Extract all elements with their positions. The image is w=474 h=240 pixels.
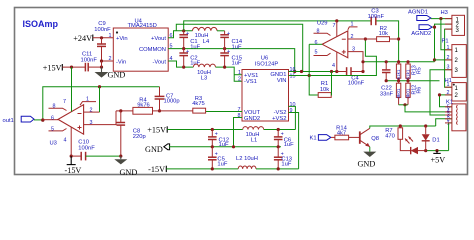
svg-text:1uF: 1uF	[232, 44, 242, 50]
svg-text:15: 15	[290, 74, 296, 80]
svg-text:GND: GND	[145, 145, 163, 154]
capacitor C11	[81, 52, 98, 72]
svg-text:1: 1	[86, 97, 89, 103]
wire P1 pin3 down to K pin3	[430, 70, 452, 115]
wire U29 output descent	[308, 44, 310, 75]
port AGND2	[411, 25, 432, 37]
capacitor C13	[274, 147, 292, 169]
U29 pin 4 drop to GND1	[332, 52, 337, 72]
svg-text:D1: D1	[432, 137, 439, 143]
svg-text:+24V: +24V	[73, 34, 92, 43]
port out1	[3, 116, 45, 124]
svg-text:5: 5	[51, 127, 54, 133]
svg-text:10k: 10k	[379, 31, 388, 37]
capacitor C2	[179, 49, 200, 68]
ground GND under C8	[114, 155, 137, 178]
svg-text:9: 9	[290, 108, 293, 114]
transistor Q8	[360, 128, 379, 147]
port AGND1	[408, 10, 431, 21]
svg-text:16: 16	[290, 67, 296, 73]
svg-text:100nF: 100nF	[348, 81, 365, 87]
resistor R1	[309, 72, 331, 98]
U29 pin 6 output	[309, 40, 322, 46]
svg-text:-VS1: -VS1	[244, 79, 257, 85]
inductor L1	[243, 127, 264, 144]
svg-text:1uF: 1uF	[232, 61, 242, 67]
svg-text:10k: 10k	[320, 87, 329, 93]
U29 pin 8 stub	[314, 28, 331, 35]
svg-text:51k1: 51k1	[396, 69, 401, 79]
resistor R3	[192, 96, 205, 113]
svg-text:-Vout: -Vout	[152, 59, 166, 65]
svg-text:VIN: VIN	[277, 78, 287, 84]
wire U4 pin2	[100, 59, 113, 62]
U29 pin 3 wire down to C4 node	[348, 47, 363, 72]
svg-text:3: 3	[352, 47, 355, 53]
wire rail GND2	[169, 145, 281, 148]
wire R4 to R3	[153, 110, 193, 112]
svg-text:ISO124P: ISO124P	[255, 62, 279, 68]
capacitor C3	[368, 8, 385, 25]
resistor R6	[406, 81, 423, 105]
U29 pin 7 supply	[333, 21, 337, 37]
svg-text:L4: L4	[203, 39, 210, 45]
connector H3	[441, 10, 465, 35]
svg-text:470: 470	[385, 133, 395, 139]
connector K1 plug	[446, 100, 466, 131]
svg-text:100nF: 100nF	[78, 145, 95, 151]
capacitor C10	[71, 140, 121, 161]
svg-text:-15V: -15V	[148, 165, 165, 174]
svg-text:L2 10uH: L2 10uH	[236, 156, 258, 162]
svg-text:1: 1	[351, 21, 354, 27]
svg-text:+Vout: +Vout	[151, 36, 166, 42]
svg-text:1uF: 1uF	[281, 162, 291, 168]
port GND mid	[145, 144, 170, 154]
wire row2	[385, 79, 440, 82]
wire +15V top run	[62, 61, 103, 69]
wire AGND1 to H3 pin1	[431, 17, 452, 20]
resistor R5	[396, 62, 401, 81]
resistor R2	[377, 26, 399, 42]
wire GND2 pin8 descent	[234, 118, 243, 147]
svg-text:+5V: +5V	[431, 156, 446, 165]
wire R12/R6 bottoms to K pin 4	[399, 103, 452, 112]
capacitor C14	[217, 31, 243, 51]
svg-text:100nF: 100nF	[368, 14, 385, 20]
svg-text:4k75: 4k75	[192, 101, 205, 107]
wire input node run	[116, 109, 133, 112]
U3 pin 4 to -15V	[64, 127, 73, 158]
wire P1 pin2	[435, 59, 452, 61]
wire COMMON rail	[168, 47, 296, 73]
wire +24V to U4 pin1	[93, 36, 114, 39]
wire -Vout jog	[168, 61, 193, 69]
wire H3 pin3 to H1 pin1	[445, 29, 452, 87]
wire row1 AGND node	[361, 60, 434, 63]
LED	[405, 137, 426, 155]
wire U4 pin6 jog to top rail	[168, 29, 192, 38]
capacitor C4	[337, 67, 365, 86]
capacitor C6	[274, 130, 294, 149]
svg-text:8: 8	[238, 113, 241, 119]
svg-text:51k1: 51k1	[406, 69, 411, 79]
svg-text:1uF: 1uF	[284, 142, 294, 148]
svg-text:L1: L1	[251, 138, 257, 144]
svg-text:Q8: Q8	[371, 136, 379, 142]
svg-text:4: 4	[332, 63, 335, 69]
svg-text:H3: H3	[441, 10, 448, 16]
wire T1 net	[184, 19, 399, 62]
U3 pin 2 wire to feedback	[84, 87, 100, 114]
wire T2 net	[176, 24, 302, 71]
connector H1	[445, 78, 467, 101]
svg-text:U29: U29	[317, 21, 328, 27]
sheet frame	[15, 8, 468, 175]
svg-text:GND2: GND2	[244, 116, 260, 122]
wire H1 pin2 to K pin5	[438, 93, 452, 107]
U3 pin 1 stub	[80, 97, 96, 106]
svg-text:+: +	[186, 31, 189, 37]
svg-text:5: 5	[315, 50, 318, 56]
svg-text:+Vin: +Vin	[116, 36, 128, 42]
port -15V mid	[148, 165, 166, 174]
resistor R12	[396, 81, 401, 105]
svg-text:2: 2	[351, 34, 354, 40]
inductor L4	[193, 27, 217, 45]
svg-text:10uH: 10uH	[195, 33, 209, 39]
svg-text:3k01: 3k01	[406, 88, 411, 98]
port K1	[310, 135, 335, 142]
inductor L3	[193, 64, 215, 82]
port +15V mid	[147, 125, 167, 134]
svg-text:1000p: 1000p	[164, 99, 180, 105]
svg-text:7: 7	[63, 99, 66, 105]
wire LED to K pin1	[424, 123, 452, 152]
capacitor C15	[220, 49, 242, 68]
capacitor C8	[117, 111, 146, 156]
svg-text:U3: U3	[50, 140, 57, 146]
svg-text:L3: L3	[201, 76, 207, 82]
svg-text:+: +	[227, 31, 230, 37]
svg-text:GND: GND	[108, 71, 126, 80]
resistor R7	[385, 126, 411, 151]
wire rail +15V	[167, 128, 295, 131]
svg-text:6: 6	[51, 115, 54, 121]
svg-text:P1: P1	[442, 38, 449, 44]
connector pin stubs	[445, 19, 452, 123]
U29 pin 5 stub	[314, 50, 331, 56]
port -15V under U3	[65, 156, 82, 175]
IC U6 ISO124P	[238, 56, 296, 123]
IC U4 TMA2415D	[109, 18, 173, 71]
wire VOUT pin7 to R3	[206, 111, 242, 113]
wire Q8 collector run	[370, 124, 436, 128]
svg-text:1uF: 1uF	[190, 44, 200, 50]
capacitor C9	[94, 21, 111, 61]
connector P1	[442, 38, 467, 77]
svg-text:8: 8	[317, 28, 320, 34]
svg-text:R5: R5	[417, 67, 423, 74]
capacitor C7	[155, 87, 180, 113]
diode D1	[422, 126, 440, 151]
svg-text:+: +	[186, 49, 189, 55]
inductor L2	[236, 156, 258, 169]
svg-text:2: 2	[90, 107, 93, 113]
ground GND at U4	[95, 67, 126, 79]
svg-text:R6: R6	[417, 87, 423, 94]
wire -VS2 pin10 descent	[289, 106, 296, 129]
svg-text:C9: C9	[98, 21, 105, 27]
wire GND1 pin16 run	[289, 70, 339, 73]
capacitor C12	[208, 130, 229, 149]
svg-text:7: 7	[333, 23, 336, 29]
capacitor C5	[208, 147, 228, 169]
wire rail -15V	[166, 167, 298, 170]
svg-text:3: 3	[90, 120, 93, 126]
port +5V	[431, 151, 446, 165]
svg-text:+15V: +15V	[147, 125, 166, 134]
U3 pin 6 output wire	[43, 115, 58, 121]
svg-text:GND: GND	[120, 168, 138, 177]
resistor R4	[133, 98, 153, 115]
U3 pin 3 wire to input node	[84, 111, 116, 126]
op-amp U3	[50, 105, 84, 147]
svg-text:-Vin: -Vin	[116, 59, 126, 65]
svg-text:+: +	[227, 49, 230, 55]
svg-text:220p: 220p	[133, 134, 146, 140]
wire -V rail to U6 pins 1,2	[216, 66, 243, 82]
svg-text:AGND1: AGND1	[408, 10, 428, 16]
wire P1 pin1 from AGND1	[441, 19, 452, 50]
resistor R14	[335, 125, 360, 140]
svg-text:3k01: 3k01	[396, 88, 401, 98]
svg-text:K1: K1	[310, 136, 317, 142]
U29 pin 2 wire	[348, 34, 400, 41]
svg-text:GND: GND	[358, 159, 376, 168]
svg-text:8: 8	[53, 103, 56, 109]
op-amp U29	[317, 21, 348, 58]
port +15V top	[43, 63, 63, 72]
svg-text:-15V: -15V	[65, 166, 82, 175]
ground GND at Q8	[358, 147, 377, 169]
svg-text:out1: out1	[3, 118, 14, 124]
wire +VS2 pin9 descent	[289, 113, 299, 169]
U3 pin 8 stub	[49, 103, 67, 110]
svg-text:1: 1	[238, 70, 241, 76]
svg-text:ISOAmp: ISOAmp	[23, 19, 59, 29]
svg-text:100nF: 100nF	[81, 57, 98, 63]
svg-text:+: +	[281, 131, 284, 137]
svg-text:+VS2: +VS2	[272, 116, 286, 122]
capacitor C22	[380, 62, 394, 98]
svg-text:1uF: 1uF	[217, 162, 227, 168]
U3 pin 7 supply drop from +15V	[63, 67, 72, 111]
svg-text:COMMON: COMMON	[139, 47, 166, 53]
svg-text:4k7: 4k7	[337, 130, 346, 136]
svg-text:4: 4	[64, 137, 67, 143]
svg-text:33nF: 33nF	[380, 91, 394, 97]
wire feedback net U3	[43, 85, 160, 120]
svg-text:+15V: +15V	[43, 63, 62, 72]
svg-text:2: 2	[238, 76, 241, 82]
capacitor C1	[179, 31, 200, 51]
wire AGND2 to H3 pin2 and down to row1	[432, 24, 452, 62]
svg-text:2: 2	[109, 56, 112, 62]
U3 pin 5 stub	[49, 127, 67, 133]
wire VIN pin15 run + feedback riser	[289, 37, 377, 77]
svg-text:9k76: 9k76	[137, 102, 150, 108]
svg-text:6: 6	[315, 40, 318, 46]
port +24V	[73, 34, 93, 43]
svg-text:+: +	[215, 131, 218, 137]
resistor R13	[406, 62, 423, 81]
U29 pin 1 stub	[348, 21, 358, 29]
svg-text:AGND2: AGND2	[411, 31, 431, 37]
svg-text:1: 1	[109, 33, 112, 39]
wire K pin2 riser	[436, 119, 452, 126]
